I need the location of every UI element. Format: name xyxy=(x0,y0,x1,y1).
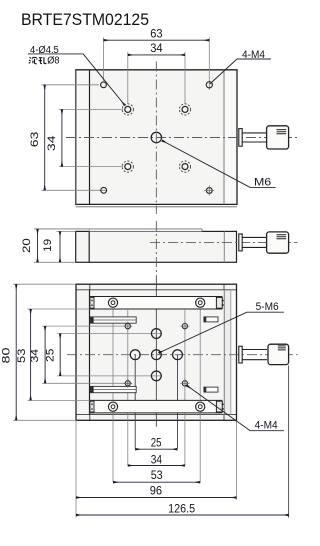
dimension 34 (bottom) xyxy=(128,452,185,466)
dimension 63 (top) xyxy=(104,26,210,40)
M4 hole bottom-right (bottom view) xyxy=(180,379,189,388)
dimension 53 (left) xyxy=(16,309,31,400)
top view inner-left line xyxy=(89,70,91,205)
M6 hole bottom xyxy=(151,371,161,381)
top view lower base line xyxy=(76,206,237,208)
top view left clamp edge line xyxy=(75,70,77,205)
dimension 25 (left, bottom view) xyxy=(44,334,60,376)
bottom view solid vertical centerline xyxy=(155,277,157,427)
top view micrometer knob xyxy=(267,126,289,149)
M4 hole top-right xyxy=(206,82,212,88)
svg-text:53: 53 xyxy=(16,349,28,363)
bottom rail right cap xyxy=(216,401,223,412)
svg-text:63: 63 xyxy=(29,132,41,148)
M6 center hole xyxy=(151,132,161,142)
top rail right cap xyxy=(216,297,223,308)
M6 hole right xyxy=(173,350,183,360)
side view knob axis centerline xyxy=(150,241,298,243)
side view extension line y=262.3 xyxy=(34,261,76,263)
bottom view outline xyxy=(76,284,237,420)
bottom view band tick right-top xyxy=(223,284,225,290)
extension line y=333.5 xyxy=(57,333,162,335)
svg-text:5-M6: 5-M6 xyxy=(256,301,279,313)
svg-text:4-M4: 4-M4 xyxy=(255,419,278,431)
M4 hole top-left (bottom view) xyxy=(123,322,132,331)
extension line x=200.2 xyxy=(199,303,201,482)
bottom rail screw right xyxy=(196,402,205,411)
bottom view micrometer knob xyxy=(268,344,289,364)
extension line y=166.6 (34 left dim) xyxy=(59,166,123,168)
dimension 34 (left, bottom view) xyxy=(29,326,45,383)
top view inner-right line xyxy=(223,70,225,205)
M4 hole top-left xyxy=(101,82,107,88)
counterbore hole top-left xyxy=(122,104,133,115)
extension line x=113 xyxy=(112,303,114,482)
svg-text:80: 80 xyxy=(0,348,12,364)
M4 hole top-right (bottom view) xyxy=(180,322,189,331)
svg-text:20: 20 xyxy=(21,238,33,253)
side view top plate lip xyxy=(34,229,202,232)
dimension 34 (top) xyxy=(128,41,185,55)
svg-text:25: 25 xyxy=(44,349,56,362)
M6 hole top xyxy=(151,329,161,339)
bottom view band tick right-bottom xyxy=(223,415,225,421)
top view vertical centerline xyxy=(155,62,157,215)
M4 hole bottom-left xyxy=(101,187,107,193)
bottom view body xyxy=(76,284,237,420)
svg-text:96: 96 xyxy=(150,484,163,498)
M6 hole left xyxy=(130,350,140,360)
svg-text:M6: M6 xyxy=(254,176,271,188)
svg-text:Ø8: Ø8 xyxy=(47,56,60,67)
svg-text:34: 34 xyxy=(29,349,41,363)
bottom view top band line xyxy=(76,289,237,291)
svg-text:63: 63 xyxy=(150,26,163,40)
label M6 (top view) xyxy=(162,141,276,189)
top view micrometer flange xyxy=(239,129,242,147)
extension line y=400.4 xyxy=(28,399,90,401)
extension line x=184.9 xyxy=(184,310,186,466)
svg-text:53: 53 xyxy=(151,468,163,482)
top rail left cap xyxy=(90,297,94,308)
dimension 20 (side) xyxy=(21,229,37,262)
label 4-M4 (bottom view) xyxy=(187,385,284,431)
right tab top xyxy=(204,317,218,322)
extension line x=135.2 xyxy=(134,355,136,448)
side view inner-right line xyxy=(223,231,225,262)
counterbore hole bottom-left xyxy=(122,161,133,172)
side view inner-left line xyxy=(88,231,90,262)
extension line y=383.3 xyxy=(42,382,131,384)
extension line y=375.9 xyxy=(57,375,162,377)
top view body plate xyxy=(76,70,237,205)
bottom view inner-right line 2 xyxy=(230,290,232,415)
M6 hole center xyxy=(151,350,161,360)
extension line y=420.3 xyxy=(13,419,76,421)
extension line y=326.1 xyxy=(42,325,131,327)
counterbore hole top-right xyxy=(179,104,190,115)
bottom view micrometer flange xyxy=(239,346,242,363)
side view extension line y=231.4 xyxy=(57,230,76,232)
side view micrometer flange xyxy=(239,234,242,251)
bottom view band tick left-bottom xyxy=(89,415,91,421)
bottom gib rail xyxy=(90,400,223,413)
side view micrometer knob xyxy=(267,232,289,253)
top gib rail xyxy=(90,297,223,310)
right tab bottom xyxy=(204,387,218,392)
svg-text:25: 25 xyxy=(151,436,162,450)
extension line y=309 xyxy=(28,308,90,310)
label 4-d4.5 counterbore d8 xyxy=(28,45,125,106)
dimension 34 (left) xyxy=(46,109,62,166)
side view micrometer shaft xyxy=(242,237,266,247)
side view base body xyxy=(76,231,237,262)
bottom view band tick left-top xyxy=(89,284,91,290)
left gib screw slot top xyxy=(90,317,136,323)
extension line y=190.3 (63 left dim, through hole) xyxy=(42,189,108,191)
bottom rail left cap xyxy=(90,401,94,412)
extension line y=84.8 (63 left dim) xyxy=(42,84,100,86)
extension line y=284.2 xyxy=(13,283,76,285)
bottom view horizontal centerline xyxy=(67,354,298,356)
bottom view inner-left line xyxy=(89,290,91,415)
extension line x=127.8 (34 top dim) xyxy=(127,52,129,104)
dimension 126.5 (bottom) xyxy=(76,502,289,516)
top rail screw right xyxy=(196,298,205,307)
svg-text:34: 34 xyxy=(151,452,163,466)
svg-text:34: 34 xyxy=(46,136,58,152)
counterbore hole bottom-right xyxy=(179,161,190,172)
extension line x=177.5 xyxy=(177,355,179,448)
M4 hole bottom-right xyxy=(204,186,214,196)
extension line x=209.3 (63 top dim, through hole) xyxy=(208,37,210,90)
svg-text:126.5: 126.5 xyxy=(168,502,195,516)
bottom rail screw left xyxy=(108,402,117,411)
extension line x=103.5 (63 top dim) xyxy=(103,37,105,81)
M4 hole bottom-left (bottom view) xyxy=(123,379,132,388)
dimension 19 (side) xyxy=(42,231,60,262)
svg-text:19: 19 xyxy=(42,239,54,252)
dimension 53 (bottom) xyxy=(113,468,200,482)
svg-text:BRTE7STM02125: BRTE7STM02125 xyxy=(21,10,149,29)
bottom view bottom band line xyxy=(76,414,237,416)
extension line x=76 (96/126.5 dims) xyxy=(75,420,77,517)
extension line x=185 (34 top dim) xyxy=(184,52,186,104)
left gib screw slot bottom xyxy=(90,386,136,392)
label 4-M4 (top view) xyxy=(210,49,271,84)
extension line x=127.8 xyxy=(127,310,129,466)
bottom view inner-right line xyxy=(223,290,225,415)
extension line x=288.6 (126.5 dim) xyxy=(288,366,290,518)
label 5-M6 xyxy=(159,301,284,353)
top view micrometer shaft xyxy=(242,133,266,142)
dimension 80 (left) xyxy=(0,284,16,420)
top view horizontal centerline xyxy=(66,137,298,139)
dimension 63 (left) xyxy=(29,85,45,191)
extension line x=236.5 (96 dim) xyxy=(236,420,238,500)
dimension 96 (bottom) xyxy=(76,484,237,498)
top rail screw left xyxy=(108,298,117,307)
bottom view micrometer shaft xyxy=(242,350,267,360)
extension line y=109.4 (34 left dim) xyxy=(59,108,123,110)
dimension 25 (bottom) xyxy=(135,436,177,450)
svg-text:34: 34 xyxy=(150,41,163,55)
side view vertical centerline xyxy=(155,221,157,277)
label ChenKong d8 (counterbore text) xyxy=(29,57,47,64)
